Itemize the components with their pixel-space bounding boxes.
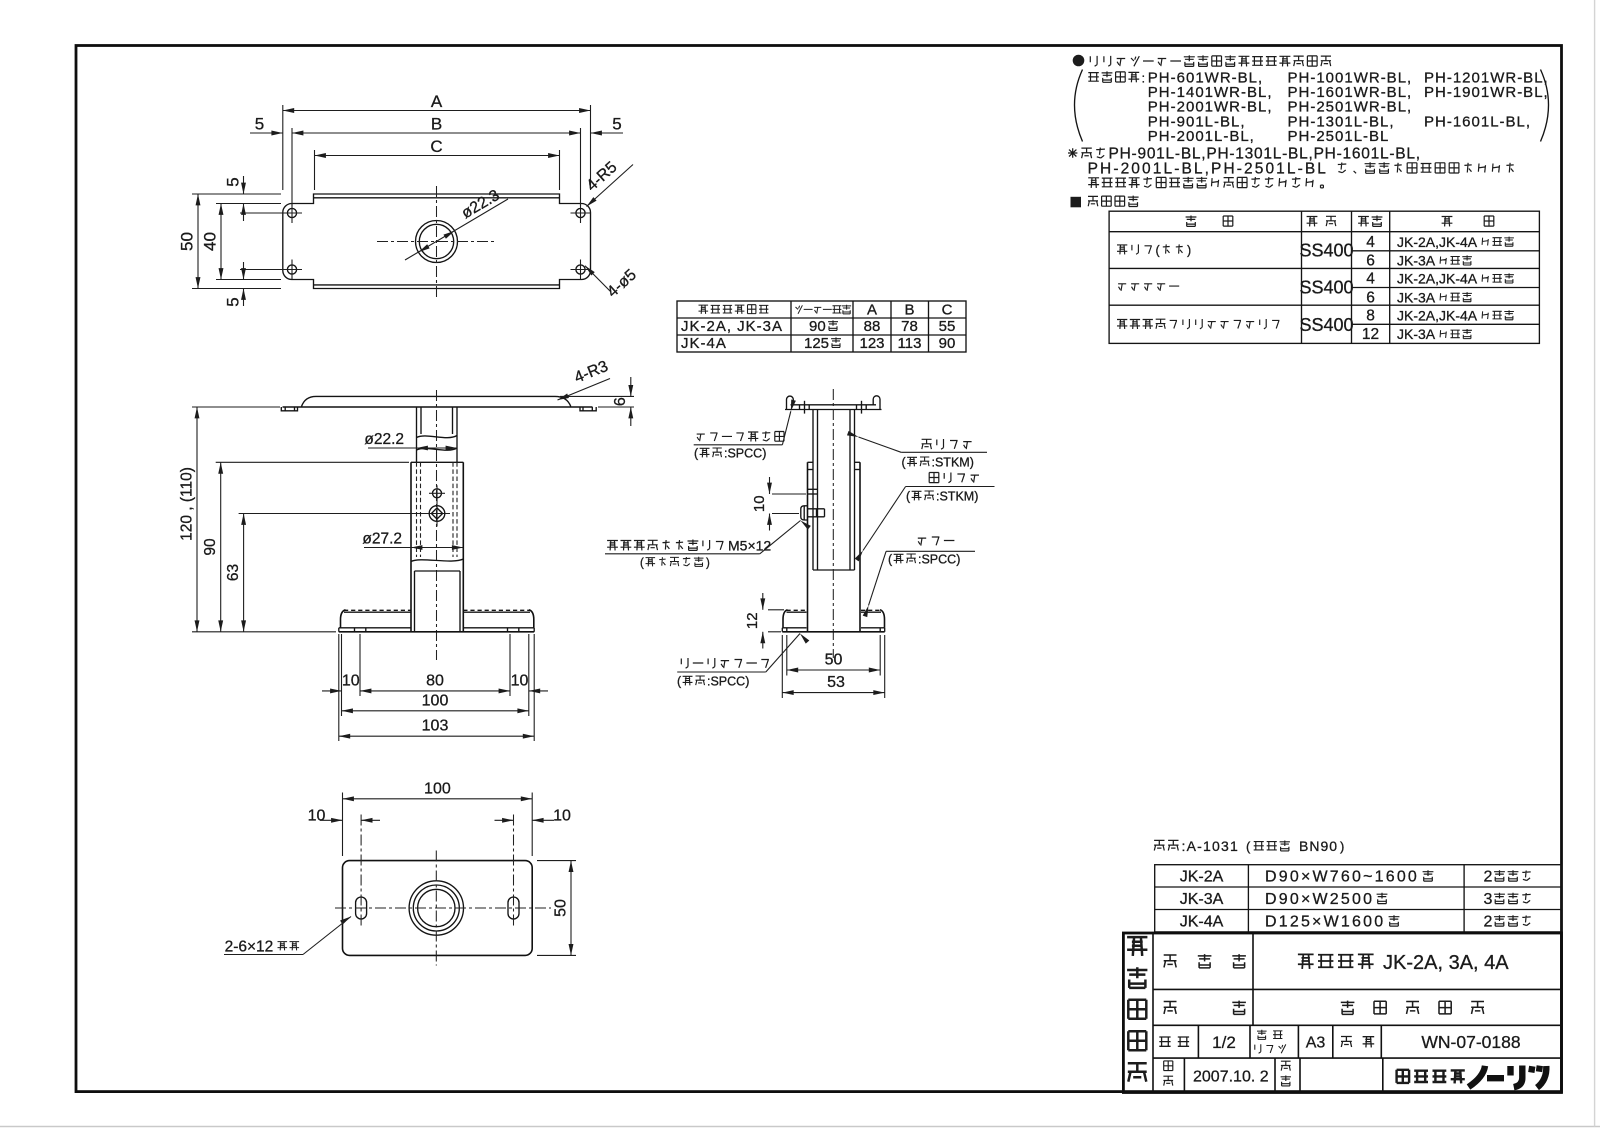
drawing name label [1164,1001,1246,1015]
svg-text:113: 113 [898,335,922,352]
cover top dashed+solid [787,609,807,611]
seat hook left [787,396,794,409]
svg-text:SS400: SS400 [1299,315,1353,335]
front centerline [436,390,438,660]
upper screw hole marks [808,488,818,490]
center hole [416,221,458,263]
bullet [1073,55,1085,67]
svg-text:1/2: 1/2 [1212,1033,1236,1052]
outer pipe bottom wave [411,559,463,562]
dim 5 right of B [591,115,624,134]
svg-text:PH-2001L-BL,PH-2501L-BL: PH-2001L-BL,PH-2501L-BL [1088,160,1328,177]
dim C [315,137,560,190]
inner pipe walls [812,410,814,571]
vertical label: nounyuu shiyouzu [1127,937,1147,956]
svg-text::SPCC): :SPCC) [918,553,960,567]
centerlines of hole [377,241,496,243]
dim 120,(110) [179,407,337,632]
row: washer [1118,284,1179,291]
logo katakana NO [1469,1066,1486,1087]
label screw M5x12 [607,538,771,554]
svg-text:4: 4 [1366,271,1375,288]
dim 12 base height [744,593,784,649]
svg-text:): ) [706,558,710,570]
svg-text:2: 2 [1484,914,1493,931]
svg-text:5: 5 [612,115,621,134]
logo katakana NORITZ [1469,1066,1547,1088]
product name value [1298,952,1509,974]
attached parts header [1071,197,1082,208]
upper adjust hole [429,485,445,501]
svg-text:BN90: BN90 [1299,838,1338,854]
dim 80 [360,673,510,691]
created cell [1164,1061,1173,1071]
svg-text:): ) [1187,244,1191,258]
svg-text:10: 10 [511,673,529,690]
logo katakana TSU [1531,1066,1532,1072]
corner hole bottom-left [282,260,302,280]
label plate-seat (material SPCC) [697,431,784,441]
svg-text:90: 90 [939,335,956,352]
product name label [1164,954,1246,968]
note: however ... [1068,146,1421,163]
center hole circles [409,881,463,935]
dim 10 right [511,673,548,691]
corner hole top-right [571,203,591,223]
title: panel heater floor-mount stand internal view [1090,55,1331,66]
svg-text:88: 88 [864,318,881,335]
outer pipe wide section [411,461,463,463]
cover shoulders [341,610,346,628]
dim 53 base plate [782,635,884,698]
dim 100 [342,692,529,711]
svg-text::: : [1142,70,1146,85]
svg-text:125: 125 [804,335,829,352]
svg-text:6: 6 [1366,289,1375,306]
label outer pipe (STKM) [929,473,979,483]
machine list [1148,69,1549,144]
svg-text:63: 63 [225,564,242,581]
svg-text:53: 53 [827,674,845,691]
dim o27.2 [362,531,463,550]
seat bottom line [785,409,882,411]
svg-text::STKM): :STKM) [932,456,974,470]
svg-text:ø27.2: ø27.2 [362,531,402,548]
svg-text:5: 5 [224,297,243,306]
svg-text:JK-2A, JK-3A: JK-2A, JK-3A [681,318,783,335]
svg-text:50: 50 [825,652,843,669]
svg-text:10: 10 [342,673,360,690]
svg-text:PH-1901WR-BL,: PH-1901WR-BL, [1424,84,1549,101]
parts table header [1186,216,1233,227]
parts table grid [1109,211,1539,343]
dim B [292,115,581,207]
svg-text:PH-1601L-BL,: PH-1601L-BL, [1424,113,1531,130]
svg-text:D90×W2500: D90×W2500 [1265,891,1374,908]
Noritz logo [1397,1070,1465,1084]
dim 5 bottom-left small [224,262,283,307]
svg-text:JK-4A: JK-4A [681,335,727,352]
svg-text:12: 12 [744,612,761,629]
svg-text:JK-2A,JK-4A: JK-2A,JK-4A [1397,234,1478,250]
inner pipe upper section [416,407,418,462]
svg-text:PH-2001L-BL,: PH-2001L-BL, [1148,128,1255,145]
side centerline [832,389,834,658]
svg-text:5: 5 [224,177,243,186]
label 2-6x12 slot [224,914,352,955]
svg-text:ø22.2: ø22.2 [364,431,404,448]
svg-text:C: C [942,302,953,319]
svg-text:B: B [431,115,442,134]
base cover front: top dashed+solid [344,609,411,611]
svg-text:A3: A3 [1306,1035,1326,1052]
svg-text::STKM): :STKM) [936,490,978,504]
svg-text:50: 50 [178,232,197,251]
svg-text:10: 10 [751,495,768,512]
title block grid [1153,933,1562,1093]
svg-text:55: 55 [939,318,956,335]
plate end tab left [281,407,297,411]
inner pipe bottom [813,569,855,571]
dim 10 right [495,807,572,824]
bottom dim ext lines [341,634,343,716]
dim o22.2 [364,431,457,450]
label base plate (SPCC) [681,658,769,668]
svg-text:40: 40 [201,232,220,251]
top view plate outline [283,194,591,289]
svg-text:123: 123 [859,335,884,352]
dim 50 [178,194,282,289]
big parentheses [1075,70,1083,142]
scale cell [1159,1037,1189,1046]
svg-text:PH-2501L-BL: PH-2501L-BL [1288,128,1390,145]
dim 100 [343,780,533,856]
svg-text:103: 103 [422,718,449,735]
dim 6 plate thickness [560,377,634,426]
svg-text:(: ( [640,558,644,570]
svg-text:M5×12: M5×12 [728,538,771,554]
dim 50 cover [787,635,880,676]
logo katakana RI [1507,1066,1513,1076]
svg-text:SS400: SS400 [1299,277,1353,297]
svg-text:12: 12 [1362,326,1379,343]
svg-text:2007.10. 2: 2007.10. 2 [1193,1069,1269,1086]
svg-text:): ) [1340,839,1344,854]
svg-text:10: 10 [553,807,571,824]
label inner pipe (STKM) [922,439,972,449]
dim 10 left [308,807,380,824]
svg-text:D90×W760~1600: D90×W760~1600 [1265,869,1419,886]
hidden inner pipe dashes [416,462,418,557]
dim 10 left [322,673,360,691]
svg-text:WN-07-0188: WN-07-0188 [1421,1032,1520,1052]
dim 90 [202,462,409,632]
model rows [1180,869,1224,931]
slot left [356,897,367,919]
pipe break waves [417,436,458,438]
svg-text:JK-3A: JK-3A [1397,289,1436,305]
base plate outline [343,861,533,956]
dim 63 [225,514,424,632]
svg-text:C: C [430,137,442,156]
label 4-R3 leader [557,358,611,402]
svg-text:90: 90 [809,318,826,335]
row: truss tapping screw [1117,319,1279,329]
dim 5 top-left small [224,176,283,221]
svg-text:4: 4 [1366,234,1375,251]
svg-text:100: 100 [424,780,451,797]
row: wood screw [1117,244,1191,258]
svg-text:2: 2 [1484,869,1493,886]
scanned paper edge (faint) [0,1126,1600,1128]
base plate side [782,627,806,629]
top plate top edge with corner ramps [302,396,571,406]
screw M5x12 side [801,506,808,520]
outer pipe walls [807,462,809,632]
dim 10 screw holes [751,477,806,531]
svg-text:3: 3 [1484,891,1493,908]
svg-text::SPCC): :SPCC) [707,675,749,689]
seat crimp ticks [804,401,806,414]
dim 40 [201,204,282,280]
svg-text::SPCC): :SPCC) [724,447,766,461]
label 4-R5 with leader [583,159,633,209]
svg-text:10: 10 [308,807,326,824]
color tone note [1154,838,1344,854]
svg-text:(: ( [1246,839,1251,854]
dim 103 [339,718,534,737]
label cover (SPCC) [918,537,955,546]
dim 5 left of B [250,115,283,134]
seat hook right [873,396,880,410]
slot right [508,897,519,919]
svg-text:120 , (110): 120 , (110) [179,467,196,541]
svg-text:JK-4A: JK-4A [1180,914,1224,931]
centerlines [335,907,551,909]
svg-text:D125×W1600: D125×W1600 [1265,914,1385,931]
cover shoulders side [783,610,788,628]
svg-text:A: A [431,92,443,111]
label 4-o5 with leader [583,264,640,301]
seat top line [791,404,877,406]
svg-text:6: 6 [612,397,629,406]
plate end tab right [580,407,596,411]
lower column inner lines [415,570,461,572]
dim A [283,92,591,190]
svg-text:100: 100 [422,692,449,709]
svg-text::A-1031: :A-1031 [1182,838,1239,854]
svg-text:A: A [867,302,877,319]
svg-text:6: 6 [1366,253,1375,270]
svg-text:5: 5 [255,115,264,134]
svg-text:JK-2A,JK-4A: JK-2A,JK-4A [1397,271,1478,287]
svg-text:JK-2A,JK-4A: JK-2A,JK-4A [1397,307,1478,323]
label o22.3 diameter leader [405,187,508,260]
svg-text:8: 8 [1366,307,1375,324]
top view fold inner lines [314,197,560,199]
svg-text:JK-2A: JK-2A [1180,869,1224,886]
svg-text:SS400: SS400 [1299,241,1353,261]
svg-text:B: B [904,302,914,319]
base plate front [339,627,411,629]
svg-text:JK-2A, 3A, 4A: JK-2A, 3A, 4A [1383,952,1509,974]
logo katakana long bar [1487,1075,1504,1081]
svg-text:JK-3A: JK-3A [1397,326,1436,342]
spec table grid [677,301,966,352]
corner hole top-left [282,203,302,223]
svg-text:50: 50 [553,899,570,917]
svg-text:JK-3A: JK-3A [1180,891,1224,908]
svg-text:JK-3A: JK-3A [1397,253,1436,269]
svg-text:2-6×12: 2-6×12 [225,939,274,956]
dim 50 [537,861,576,956]
screw head front [424,501,450,527]
paper size cell [1257,1030,1282,1040]
drawing number cell [1341,1037,1374,1048]
spec table header [699,305,769,314]
title block outer [1123,933,1561,1093]
svg-text:90: 90 [202,538,219,556]
svg-text:78: 78 [901,318,918,335]
model table grid [1155,865,1562,932]
svg-text:80: 80 [426,673,444,690]
top plate bottom edge [283,406,593,408]
drawing name value [1341,1001,1484,1015]
corner hole bottom-right [571,260,591,280]
taisho kishu label [1088,70,1145,85]
